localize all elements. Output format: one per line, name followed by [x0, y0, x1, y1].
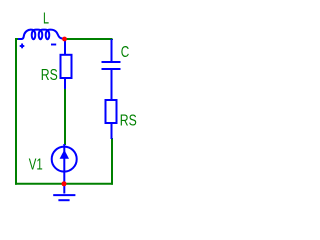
svg-text:L: L	[43, 10, 49, 27]
svg-text:RS: RS	[120, 112, 137, 129]
svg-text:C: C	[121, 44, 130, 61]
svg-text:RS: RS	[41, 67, 58, 84]
svg-text:V1: V1	[29, 156, 43, 173]
